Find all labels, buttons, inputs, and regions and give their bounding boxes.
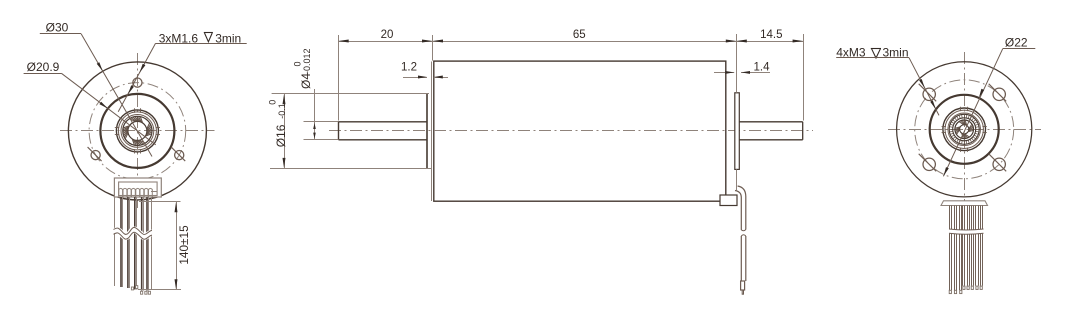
svg-text:1.4: 1.4	[754, 61, 771, 73]
svg-text:Ø4: Ø4	[299, 73, 313, 89]
svg-text:0: 0	[293, 61, 303, 66]
svg-text:20: 20	[381, 29, 394, 41]
svg-text:1.2: 1.2	[401, 62, 417, 74]
svg-text:Ø30: Ø30	[46, 21, 69, 35]
svg-text:65: 65	[573, 29, 586, 41]
svg-text:Ø22: Ø22	[1005, 36, 1028, 50]
svg-text:Ø20.9: Ø20.9	[27, 60, 60, 74]
svg-text:-0.1: -0.1	[277, 103, 287, 119]
svg-text:14.5: 14.5	[760, 29, 782, 41]
svg-text:-0.012: -0.012	[302, 48, 312, 74]
svg-text:0: 0	[268, 100, 278, 105]
svg-text:Ø16: Ø16	[274, 124, 288, 147]
svg-text:140±15: 140±15	[177, 225, 191, 265]
